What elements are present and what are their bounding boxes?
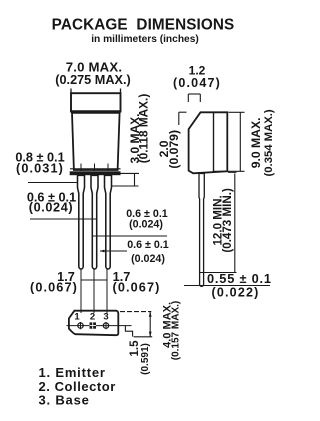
svg-text:in millimeters (inches): in millimeters (inches) — [91, 34, 199, 45]
svg-text:9.0 MAX.: 9.0 MAX. — [249, 117, 263, 168]
bottom view outline — [69, 311, 118, 336]
pin 2 square — [90, 322, 97, 328]
svg-text:(0.079): (0.079) — [167, 130, 181, 169]
svg-text:3. Base: 3. Base — [39, 393, 90, 408]
bracket 1.2 — [188, 94, 200, 102]
front view bottom flange — [70, 169, 121, 175]
dimension 4.0 — [120, 312, 152, 337]
svg-text:(0.473 MIN.): (0.473 MIN.) — [221, 188, 234, 253]
dimension line 1.7 — [81, 279, 107, 281]
svg-text:2: 2 — [90, 312, 95, 323]
leader 0.6 right upper — [92, 235, 167, 237]
svg-text:(0.275 MAX.): (0.275 MAX.) — [55, 73, 130, 87]
svg-text:(0.067): (0.067) — [113, 281, 161, 295]
svg-text:0.6 ± 0.1: 0.6 ± 0.1 — [127, 239, 169, 251]
svg-text:(0.591): (0.591) — [140, 343, 151, 375]
pin 3 circle — [103, 322, 108, 329]
front view body — [72, 113, 120, 170]
lead 2 front — [91, 175, 98, 269]
side lead — [199, 174, 204, 287]
dimension 12.0 — [200, 172, 237, 272]
bottom view centerline — [67, 325, 132, 327]
leader 0.6 left — [30, 218, 96, 220]
svg-text:(0.118 MAX.): (0.118 MAX.) — [137, 94, 151, 164]
svg-text:(0.031): (0.031) — [16, 161, 64, 175]
svg-text:(0.067): (0.067) — [30, 281, 78, 295]
leader 0.55 — [184, 285, 270, 287]
svg-text:0.55 ± 0.1: 0.55 ± 0.1 — [207, 271, 272, 286]
svg-text:(0.024): (0.024) — [29, 201, 73, 215]
svg-text:1. Emitter: 1. Emitter — [39, 365, 106, 380]
svg-text:1.5: 1.5 — [129, 340, 141, 357]
side view body — [189, 112, 228, 173]
dimension 9.0 — [214, 112, 245, 171]
bracket 1.5 step — [125, 326, 132, 337]
svg-text:(0.024): (0.024) — [129, 219, 163, 231]
lead extension centerlines — [81, 269, 107, 313]
lead 1 front — [78, 175, 85, 269]
svg-text:PACKAGE DIMENSIONS: PACKAGE DIMENSIONS — [52, 17, 235, 34]
svg-text:(0.354 MAX.): (0.354 MAX.) — [263, 109, 275, 176]
front view cap — [71, 89, 121, 112]
leader 0.8 — [28, 182, 78, 184]
svg-text:1: 1 — [74, 312, 80, 323]
svg-text:3: 3 — [103, 312, 108, 323]
lead 3 front — [105, 175, 112, 269]
bracket 2.0 — [179, 112, 187, 125]
svg-text:(0.157 MAX.): (0.157 MAX.) — [170, 301, 181, 360]
svg-text:(0.022): (0.022) — [211, 286, 259, 300]
lead centerline ticks through flange — [81, 164, 108, 172]
svg-text:(0.024): (0.024) — [131, 253, 165, 265]
arrowheads 4.0 — [149, 312, 152, 317]
side view face line — [213, 112, 215, 173]
pin 1 circle — [78, 322, 83, 329]
svg-text:(0.047): (0.047) — [173, 76, 221, 90]
leader 0.6 right lower — [100, 250, 127, 252]
bracket 3.0 right — [112, 173, 139, 186]
